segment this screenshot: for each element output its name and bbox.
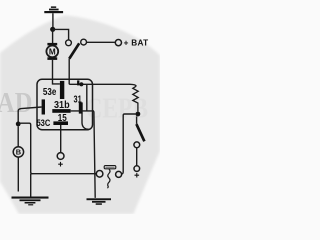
plus mark under S2 [135, 173, 140, 178]
svg-text:53C: 53C [37, 118, 51, 128]
motor M1 [46, 43, 58, 60]
terminal bar 53C [42, 99, 45, 114]
wire 31 to ground G3 [93, 111, 96, 198]
heater squiggle [107, 169, 110, 188]
thermal switch left contact circle [96, 171, 103, 178]
node junction dot A (ground/motor/switch) [50, 27, 55, 32]
wire below symbol B (stub) [17, 157, 19, 191]
wire motor to relay box terminal 53e [53, 60, 60, 84]
wire junction B down [86, 84, 88, 110]
relay box U1 [37, 79, 93, 129]
thermal switch right contact circle [116, 171, 122, 177]
ground G2 (bottom left) [12, 197, 49, 206]
switch S1 blade [69, 43, 79, 58]
switch S1 contact circle (left) [66, 40, 72, 46]
wire between S2 contacts [136, 148, 138, 166]
thermal switch bimetal bar [104, 166, 116, 169]
battery terminal circle [115, 40, 121, 46]
page background [0, 0, 160, 214]
wire 53C to left branch [18, 107, 41, 122]
svg-text:M: M [49, 48, 56, 57]
wire dot A to motor [52, 29, 54, 43]
switch S1 contact circle (right) [81, 39, 87, 45]
svg-text:AD: AD [0, 87, 33, 119]
plus mark under 15 connector [58, 162, 63, 167]
wire mid branch down to ground G2 [30, 174, 32, 197]
terminal bar 31 [79, 102, 83, 113]
node junction dot D (resistor bottom) [136, 112, 141, 117]
wire switch S1 to battery terminal [87, 41, 116, 43]
ground G3 (bottom middle) [87, 198, 112, 205]
svg-text:53e: 53e [43, 87, 57, 98]
ground G1 (top) [44, 6, 63, 13]
symbol B (circle) [13, 147, 23, 157]
switch S2 contact circle (bottom) [134, 166, 140, 172]
wire terminal 31 to box bottom [82, 114, 89, 130]
wire mid branch to thermal switch left contact [31, 173, 96, 175]
switch S2 blade [136, 116, 138, 124]
switch S2 contact circle (top) [134, 142, 140, 148]
wire 15 terminal down to connector [60, 125, 62, 153]
wire dot A to switch S1 [53, 29, 69, 40]
wire ground G1 stem [52, 13, 54, 27]
connector circle terminal 15 [57, 153, 64, 160]
terminal bar 31b [52, 109, 70, 113]
resistor R1 [133, 86, 138, 111]
wire dot D to thermal switch right contact [121, 114, 135, 174]
wire switch S1 pivot to relay box [68, 59, 70, 85]
svg-text:B: B [16, 148, 21, 157]
watermark disc [0, 15, 160, 214]
wire dot C to mid branch [18, 123, 32, 174]
svg-text:+ BAT: + BAT [124, 39, 149, 48]
node junction dot B (inside box) [79, 82, 83, 86]
wire 31b to 31 [71, 110, 94, 112]
node junction dot C (left) [16, 122, 21, 127]
wire inside box (53/junction) to resistor [69, 84, 136, 86]
wire dot C down to symbol B [17, 126, 19, 146]
terminal bar 53e [60, 81, 64, 99]
terminal bar (small, top) [77, 80, 79, 85]
terminal bar 15 [53, 121, 68, 125]
